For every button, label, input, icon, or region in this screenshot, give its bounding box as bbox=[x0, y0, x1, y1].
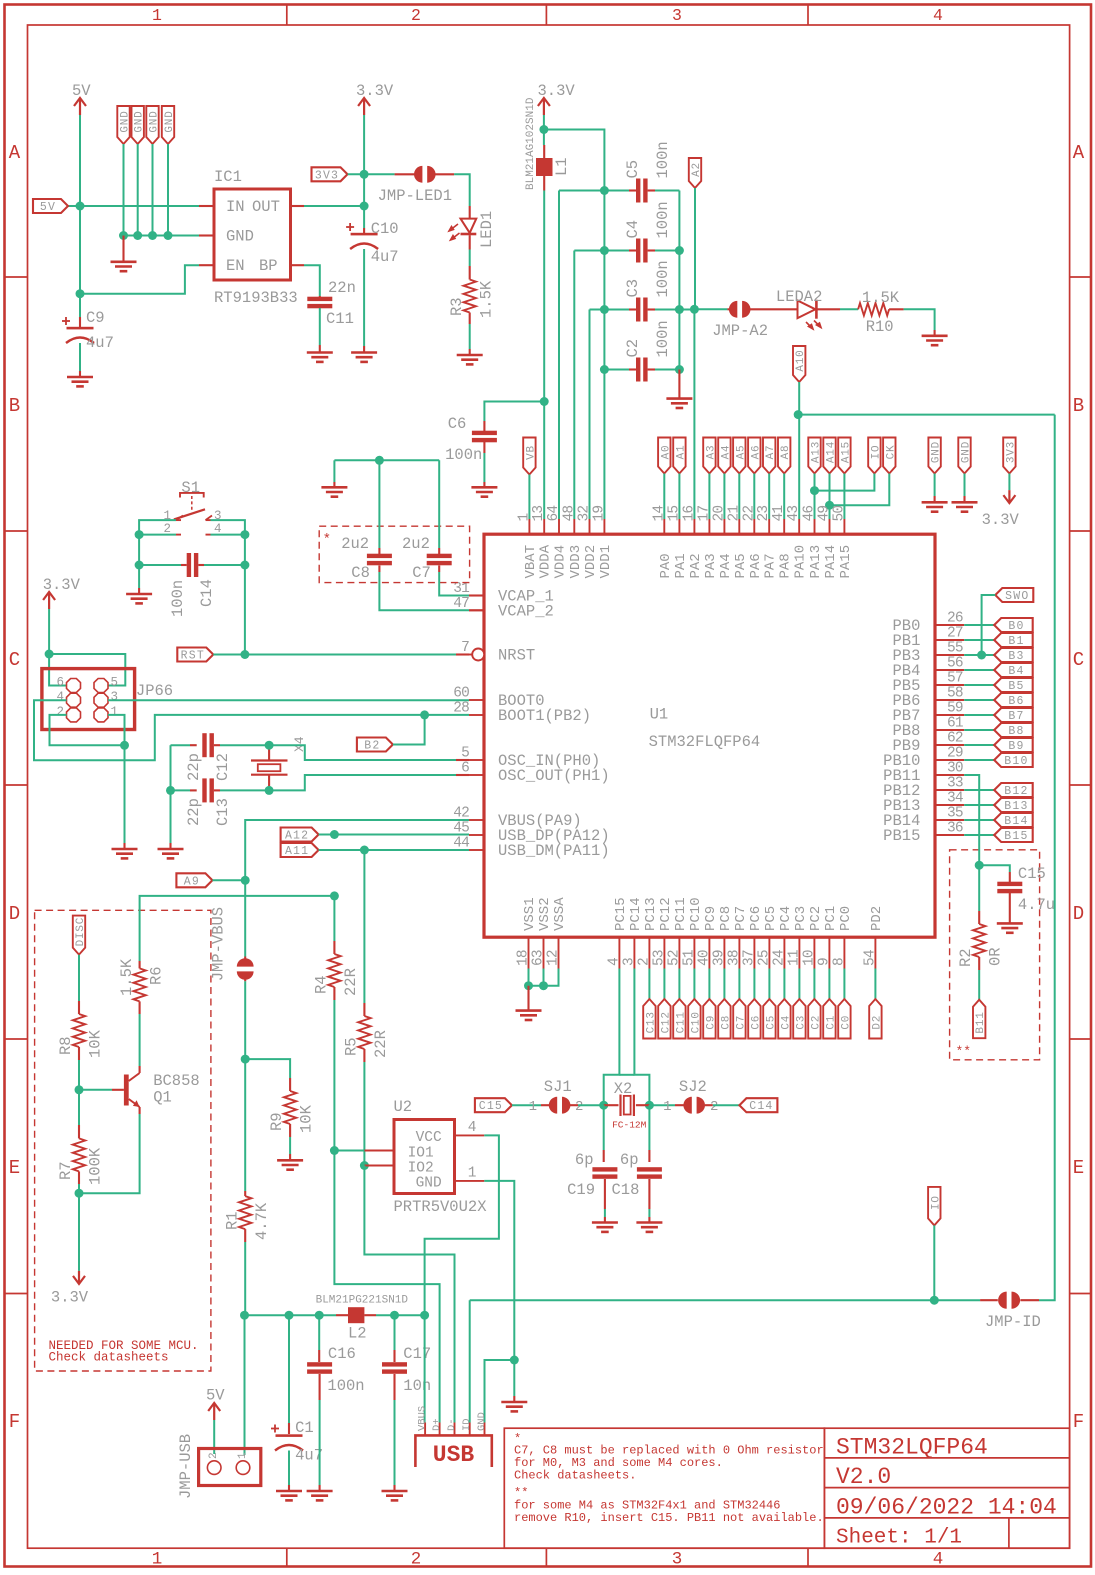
wire ID right riser bbox=[1039, 415, 1055, 1301]
svg-text:A6: A6 bbox=[750, 445, 762, 460]
wire C7 vcap1 bbox=[438, 566, 440, 573]
svg-text:VCC: VCC bbox=[416, 1130, 442, 1146]
wire cap row C3 bbox=[590, 309, 630, 311]
svg-text:PC14: PC14 bbox=[628, 897, 644, 931]
wire NRST bbox=[213, 654, 456, 656]
svg-text:53: 53 bbox=[651, 950, 667, 966]
svg-text:B13: B13 bbox=[1004, 800, 1028, 813]
svg-text:B: B bbox=[9, 395, 20, 417]
svg-text:VSS2: VSS2 bbox=[537, 897, 553, 931]
wire IO tag bbox=[933, 1225, 935, 1300]
net tag A10 bbox=[793, 346, 805, 382]
ground bbox=[307, 353, 333, 362]
svg-text:PA2: PA2 bbox=[688, 553, 704, 578]
svg-text:SWO: SWO bbox=[1005, 590, 1029, 603]
net tag A4 bbox=[718, 438, 730, 474]
svg-text:C10: C10 bbox=[371, 220, 399, 238]
svg-text:C4: C4 bbox=[780, 1015, 792, 1030]
wire OSC_IN bbox=[269, 745, 456, 760]
net tag VB bbox=[523, 438, 535, 475]
svg-text:R6: R6 bbox=[148, 966, 166, 985]
svg-text:B3: B3 bbox=[1008, 650, 1024, 663]
wire PB14 bbox=[964, 819, 994, 821]
capacitor C2 bbox=[636, 358, 640, 382]
wire PC9 bbox=[708, 969, 710, 1000]
svg-text:USB: USB bbox=[433, 1442, 475, 1468]
wire C8 top bbox=[334, 459, 439, 461]
svg-text:U1: U1 bbox=[650, 706, 669, 724]
svg-text:JMP-USB: JMP-USB bbox=[177, 1434, 195, 1499]
wire LEDA2-R10 bbox=[816, 308, 840, 310]
svg-text:30: 30 bbox=[947, 761, 963, 777]
svg-text:FC-12M: FC-12M bbox=[612, 1120, 647, 1131]
wire C9 gnd bbox=[79, 343, 81, 371]
ground bbox=[382, 1491, 408, 1500]
net tag A6 bbox=[748, 438, 760, 474]
svg-text:PA14: PA14 bbox=[823, 545, 839, 579]
wire VB bbox=[528, 475, 530, 520]
svg-text:D2: D2 bbox=[871, 1015, 883, 1030]
resistor R1 bbox=[244, 1191, 246, 1196]
svg-text:62: 62 bbox=[947, 731, 963, 747]
capacitor C12 bbox=[171, 744, 191, 746]
net tag A8 bbox=[778, 438, 790, 474]
wire IO1 net bbox=[334, 1150, 364, 1152]
svg-text:11: 11 bbox=[786, 950, 802, 966]
svg-text:3: 3 bbox=[672, 1550, 683, 1570]
wire PC4 bbox=[783, 969, 785, 1000]
wire A4 bbox=[723, 474, 725, 520]
svg-text:C9: C9 bbox=[705, 1015, 717, 1030]
svg-text:PA3: PA3 bbox=[703, 553, 719, 578]
gnd tag 2 bbox=[132, 106, 144, 144]
svg-text:Q1: Q1 bbox=[153, 1089, 172, 1107]
gnd tag 1 bbox=[117, 106, 129, 144]
svg-text:A14: A14 bbox=[826, 441, 838, 463]
svg-text:C3: C3 bbox=[624, 279, 642, 298]
capacitor C6 bbox=[483, 421, 485, 431]
svg-text:C3: C3 bbox=[795, 1015, 807, 1030]
net tag C9 bbox=[703, 999, 715, 1039]
net tag CK bbox=[883, 438, 895, 474]
wire emitter bbox=[79, 1114, 140, 1193]
wire jmp-usb pad2 bbox=[213, 1420, 215, 1454]
svg-text:1: 1 bbox=[663, 1099, 671, 1115]
svg-text:GND: GND bbox=[476, 1412, 488, 1431]
net tag A11 bbox=[281, 843, 319, 857]
svg-text:R4: R4 bbox=[313, 975, 331, 994]
wire osc bridge bbox=[619, 1074, 634, 1076]
svg-text:A1: A1 bbox=[675, 445, 687, 460]
svg-text:16: 16 bbox=[681, 506, 697, 522]
net tag C14 osc bbox=[739, 1098, 777, 1112]
svg-text:PA8: PA8 bbox=[778, 553, 794, 578]
svg-text:VDD3: VDD3 bbox=[568, 545, 584, 579]
net tag RST bbox=[177, 648, 213, 662]
ground bbox=[636, 1223, 662, 1232]
svg-text:13: 13 bbox=[531, 506, 547, 522]
svg-text:B6: B6 bbox=[1008, 695, 1024, 708]
capacitor C7 bbox=[438, 460, 440, 548]
svg-text:PA4: PA4 bbox=[718, 553, 734, 578]
wire A8 bbox=[783, 474, 785, 520]
capacitor C16 bbox=[318, 1315, 320, 1350]
wire RST vertical bbox=[244, 565, 246, 655]
svg-text:C14: C14 bbox=[198, 579, 216, 607]
ic U2 body bbox=[394, 1120, 455, 1194]
capacitor C10 bbox=[363, 228, 365, 233]
svg-text:PC9: PC9 bbox=[703, 906, 719, 931]
svg-text:Sheet: 1/1: Sheet: 1/1 bbox=[836, 1527, 962, 1550]
transistor Q1 bbox=[112, 1089, 124, 1091]
svg-text:4: 4 bbox=[56, 690, 64, 704]
svg-text:LEDA2: LEDA2 bbox=[776, 288, 823, 306]
svg-text:PA15: PA15 bbox=[838, 545, 854, 579]
wire PB11 to R2 bbox=[964, 775, 979, 911]
svg-text:C: C bbox=[1073, 649, 1084, 671]
wire cap row C5 bbox=[559, 190, 629, 192]
svg-text:1: 1 bbox=[529, 1099, 537, 1115]
svg-text:21: 21 bbox=[726, 506, 742, 522]
svg-text:PD2: PD2 bbox=[869, 906, 885, 931]
capacitor C1 bbox=[288, 1315, 290, 1423]
capacitor C15 bbox=[1009, 872, 1011, 882]
svg-text:B11: B11 bbox=[975, 1011, 987, 1033]
svg-text:10n: 10n bbox=[403, 1377, 431, 1395]
svg-text:IO1: IO1 bbox=[408, 1146, 434, 1162]
svg-text:A15: A15 bbox=[840, 441, 852, 463]
LED LED1 bbox=[469, 206, 471, 219]
svg-text:12: 12 bbox=[546, 950, 562, 966]
svg-text:1: 1 bbox=[111, 705, 119, 719]
capacitor C5 bbox=[636, 179, 640, 203]
mcu U1 body bbox=[484, 534, 935, 937]
svg-text:C5: C5 bbox=[624, 160, 642, 179]
net tag B13 bbox=[994, 798, 1032, 812]
svg-text:STM32LQFP64: STM32LQFP64 bbox=[836, 1435, 988, 1461]
svg-text:E: E bbox=[9, 1157, 20, 1179]
svg-text:A4: A4 bbox=[720, 445, 732, 460]
gnd tag right 2 bbox=[958, 438, 970, 474]
svg-text:51: 51 bbox=[681, 950, 697, 966]
wire A6 bbox=[753, 474, 755, 520]
wire PC6 bbox=[753, 969, 755, 1000]
svg-text:3.3V: 3.3V bbox=[51, 1289, 89, 1307]
svg-text:GND: GND bbox=[931, 441, 943, 463]
capacitor C18 bbox=[648, 1105, 650, 1150]
svg-text:25: 25 bbox=[756, 950, 772, 966]
svg-text:1.5K: 1.5K bbox=[478, 280, 496, 318]
svg-text:C0: C0 bbox=[840, 1015, 852, 1030]
svg-text:46: 46 bbox=[802, 506, 818, 522]
net tag D2 bbox=[869, 999, 881, 1039]
svg-text:A8: A8 bbox=[780, 445, 792, 460]
svg-text:3.3V: 3.3V bbox=[356, 82, 394, 100]
svg-text:R3: R3 bbox=[448, 297, 466, 316]
ground bbox=[277, 1160, 303, 1169]
net tag SWO bbox=[995, 588, 1033, 602]
wire D- net bbox=[364, 1166, 454, 1423]
wire PC5 bbox=[768, 969, 770, 1000]
svg-text:A3: A3 bbox=[705, 445, 717, 460]
svg-text:GND: GND bbox=[416, 1176, 442, 1192]
svg-text:VDDA: VDDA bbox=[538, 544, 554, 578]
svg-text:C17: C17 bbox=[403, 1345, 431, 1363]
wire C1 gnd bbox=[288, 1451, 290, 1486]
svg-text:PA0: PA0 bbox=[658, 553, 674, 578]
U1 top pins bbox=[529, 519, 844, 534]
wire A1 bbox=[678, 474, 680, 520]
wire R10 gnd bbox=[904, 309, 935, 330]
svg-text:0R: 0R bbox=[987, 947, 1005, 966]
net tag C7 bbox=[733, 999, 745, 1039]
svg-text:6p: 6p bbox=[575, 1151, 594, 1169]
svg-text:NRST: NRST bbox=[498, 647, 535, 665]
svg-text:1: 1 bbox=[152, 1550, 163, 1570]
wire 3v3 right bbox=[1008, 474, 1010, 491]
svg-text:10K: 10K bbox=[87, 1029, 105, 1058]
svg-text:SJ1: SJ1 bbox=[544, 1078, 572, 1096]
svg-text:64: 64 bbox=[546, 506, 562, 522]
svg-text:B1: B1 bbox=[1008, 635, 1024, 648]
svg-text:IC1: IC1 bbox=[214, 168, 242, 186]
svg-text:U2: U2 bbox=[394, 1098, 413, 1116]
wire IO top bbox=[815, 474, 875, 491]
svg-text:C4: C4 bbox=[624, 220, 642, 239]
net tag A15 bbox=[838, 438, 850, 474]
svg-text:JMP-VBUS: JMP-VBUS bbox=[210, 907, 228, 981]
svg-text:5V: 5V bbox=[40, 201, 56, 214]
wire PB10 bbox=[964, 759, 994, 761]
svg-text:PA6: PA6 bbox=[748, 553, 764, 578]
svg-text:C7: C7 bbox=[735, 1015, 747, 1030]
resistor R10 bbox=[858, 303, 889, 315]
svg-text:R8: R8 bbox=[57, 1036, 75, 1055]
svg-text:60: 60 bbox=[453, 686, 469, 702]
net tag C8 bbox=[718, 999, 730, 1039]
svg-text:10K: 10K bbox=[298, 1104, 316, 1133]
capacitor C11 bbox=[319, 296, 321, 298]
wire USB_DM bbox=[319, 849, 469, 851]
capacitor C4 bbox=[636, 239, 640, 263]
capacitor C3 bbox=[636, 298, 640, 322]
svg-text:18: 18 bbox=[516, 950, 532, 966]
wire gnd r1 bbox=[934, 474, 936, 497]
U1 NRST bubble bbox=[472, 649, 484, 661]
svg-text:8: 8 bbox=[831, 958, 847, 966]
wire PB9 bbox=[964, 744, 994, 746]
resistor R5 bbox=[363, 850, 365, 1003]
wire PB15 bbox=[964, 834, 994, 836]
ground bbox=[516, 1011, 542, 1020]
wire PB8 bbox=[964, 729, 994, 731]
svg-text:22p: 22p bbox=[185, 753, 203, 781]
ferrite L1 bbox=[543, 145, 545, 158]
svg-text:C5: C5 bbox=[765, 1015, 777, 1030]
wire PC12 bbox=[663, 969, 665, 1000]
ground bbox=[666, 399, 692, 408]
svg-text:PA7: PA7 bbox=[763, 553, 779, 578]
U1 right pins bbox=[935, 625, 964, 835]
net tag A5 bbox=[733, 438, 745, 474]
wire ID net bbox=[469, 1300, 471, 1422]
svg-text:29: 29 bbox=[947, 746, 963, 762]
svg-text:C19: C19 bbox=[567, 1181, 595, 1199]
svg-text:57: 57 bbox=[947, 671, 963, 687]
net tag A9 bbox=[176, 873, 212, 887]
svg-text:B8: B8 bbox=[1008, 725, 1024, 738]
svg-text:IN: IN bbox=[226, 198, 245, 216]
svg-text:C2: C2 bbox=[624, 339, 642, 358]
wire C15 branch bbox=[979, 865, 1010, 872]
wire 3v3 jp66 bbox=[49, 609, 66, 686]
svg-text:4: 4 bbox=[933, 6, 943, 25]
svg-text:R1: R1 bbox=[224, 1211, 242, 1230]
svg-text:1: 1 bbox=[152, 6, 162, 25]
wire C6 gnd bbox=[483, 442, 485, 453]
svg-text:4u7: 4u7 bbox=[86, 334, 114, 352]
svg-text:A2: A2 bbox=[691, 162, 703, 177]
wire PB3 bbox=[964, 654, 994, 656]
wire VDD4 line bbox=[558, 191, 560, 520]
svg-text:B10: B10 bbox=[1004, 755, 1028, 768]
svg-text:DISC: DISC bbox=[75, 917, 87, 947]
svg-text:1: 1 bbox=[468, 1166, 477, 1182]
wire PB7 bbox=[964, 714, 994, 716]
wire gnd stub bbox=[513, 1360, 515, 1396]
net tag B6 bbox=[994, 693, 1032, 707]
ground bbox=[351, 353, 377, 362]
svg-text:100n: 100n bbox=[654, 201, 672, 238]
svg-text:PC4: PC4 bbox=[778, 906, 794, 931]
ground bbox=[592, 1223, 618, 1232]
svg-text:X2: X2 bbox=[614, 1080, 633, 1098]
svg-text:RST: RST bbox=[181, 650, 205, 663]
svg-text:100K: 100K bbox=[87, 1147, 105, 1185]
net tag B12 bbox=[994, 783, 1032, 797]
wire C8 vcap2 bbox=[378, 566, 380, 573]
svg-text:58: 58 bbox=[947, 686, 963, 702]
wire DISC R8 bbox=[78, 955, 80, 1001]
svg-text:32: 32 bbox=[577, 506, 593, 522]
svg-text:VDD2: VDD2 bbox=[583, 545, 599, 579]
wire VSS gnd bbox=[528, 969, 530, 986]
svg-text:PC0: PC0 bbox=[838, 906, 854, 931]
ground bbox=[126, 594, 152, 603]
wire A13 bbox=[814, 474, 816, 520]
wire R9 gnd bbox=[289, 1137, 291, 1154]
wire PC7 bbox=[738, 969, 740, 1000]
wire A10 row bbox=[798, 414, 1054, 416]
svg-text:C1: C1 bbox=[295, 1419, 314, 1437]
dashed box Q1 bbox=[35, 910, 211, 1371]
net tag C4 bbox=[778, 999, 790, 1039]
wire PB12 bbox=[964, 789, 994, 791]
svg-text:IO: IO bbox=[870, 445, 882, 460]
svg-text:E: E bbox=[1073, 1157, 1084, 1179]
svg-text:C: C bbox=[9, 649, 20, 671]
wire A15 bbox=[843, 474, 845, 520]
svg-text:C1: C1 bbox=[825, 1015, 837, 1030]
svg-text:A12: A12 bbox=[285, 830, 309, 843]
svg-text:15: 15 bbox=[666, 506, 682, 522]
net tag B2 bbox=[357, 738, 393, 752]
wire LED1-R3 bbox=[469, 250, 471, 267]
net tag 5V bbox=[33, 199, 68, 213]
net tag DISC bbox=[73, 916, 85, 955]
wire R6 top bbox=[140, 896, 335, 961]
wire C9 bbox=[79, 206, 81, 317]
svg-text:3V3: 3V3 bbox=[315, 169, 339, 182]
dashed box C7 C8 bbox=[319, 526, 469, 582]
wire jmp-usb pad1 bbox=[244, 1454, 246, 1455]
svg-text:BC858: BC858 bbox=[153, 1072, 200, 1090]
wire PC0 bbox=[843, 969, 845, 1000]
wire cap gnd stub bbox=[678, 370, 680, 399]
wire PC10 bbox=[693, 969, 695, 1000]
LED LEDA2 bbox=[798, 301, 816, 319]
svg-text:3: 3 bbox=[621, 958, 637, 966]
wire PB0 bbox=[964, 624, 994, 626]
wire LED1 bbox=[454, 174, 470, 206]
svg-text:A0: A0 bbox=[660, 445, 672, 460]
svg-text:6: 6 bbox=[56, 676, 64, 690]
svg-text:RT9193B33: RT9193B33 bbox=[214, 289, 298, 307]
svg-text:09/06/2022 14:04: 09/06/2022 14:04 bbox=[836, 1495, 1057, 1521]
svg-text:A: A bbox=[9, 142, 21, 164]
wire SJ1 left bbox=[512, 1104, 541, 1106]
gnd tag 3 bbox=[146, 106, 158, 144]
svg-text:PA5: PA5 bbox=[733, 553, 749, 578]
svg-text:3: 3 bbox=[672, 6, 682, 25]
svg-text:4u7: 4u7 bbox=[371, 248, 399, 266]
svg-text:4: 4 bbox=[468, 1120, 477, 1136]
svg-text:OUT: OUT bbox=[252, 198, 280, 216]
wire PC14 osc bbox=[634, 969, 649, 1106]
crystal X2 bbox=[604, 1104, 619, 1106]
svg-text:D+: D+ bbox=[431, 1418, 443, 1431]
svg-text:SJ2: SJ2 bbox=[679, 1078, 707, 1096]
net tag IO top bbox=[868, 438, 880, 474]
svg-text:B12: B12 bbox=[1004, 785, 1028, 798]
svg-text:5V: 5V bbox=[206, 1387, 225, 1405]
svg-text:22: 22 bbox=[741, 506, 757, 522]
svg-text:V2.0: V2.0 bbox=[836, 1464, 891, 1490]
net tag A0 bbox=[658, 438, 670, 474]
net tag C2 bbox=[808, 999, 820, 1039]
svg-text:54: 54 bbox=[862, 950, 878, 966]
ground bbox=[922, 336, 948, 345]
svg-text:38: 38 bbox=[726, 950, 742, 966]
wire A10 bbox=[798, 382, 799, 415]
svg-text:3.3V: 3.3V bbox=[982, 511, 1020, 529]
wire OSC_OUT bbox=[269, 775, 456, 790]
svg-text:PC10: PC10 bbox=[688, 897, 704, 931]
wire A2 bbox=[693, 188, 696, 519]
wire R9 branch bbox=[245, 1059, 290, 1078]
net tag C13 bbox=[643, 999, 655, 1039]
svg-text:49: 49 bbox=[817, 506, 833, 522]
wire PC2 bbox=[813, 969, 815, 1000]
svg-text:B2: B2 bbox=[364, 740, 380, 753]
svg-text:R5: R5 bbox=[343, 1037, 361, 1056]
net tag C11 bbox=[673, 999, 685, 1039]
svg-text:C8: C8 bbox=[351, 564, 370, 582]
wire PB4 bbox=[964, 669, 994, 671]
svg-text:IO: IO bbox=[930, 1195, 942, 1210]
wire R3 gnd bbox=[469, 324, 471, 349]
wire SJ2 C14tag bbox=[713, 1104, 740, 1106]
